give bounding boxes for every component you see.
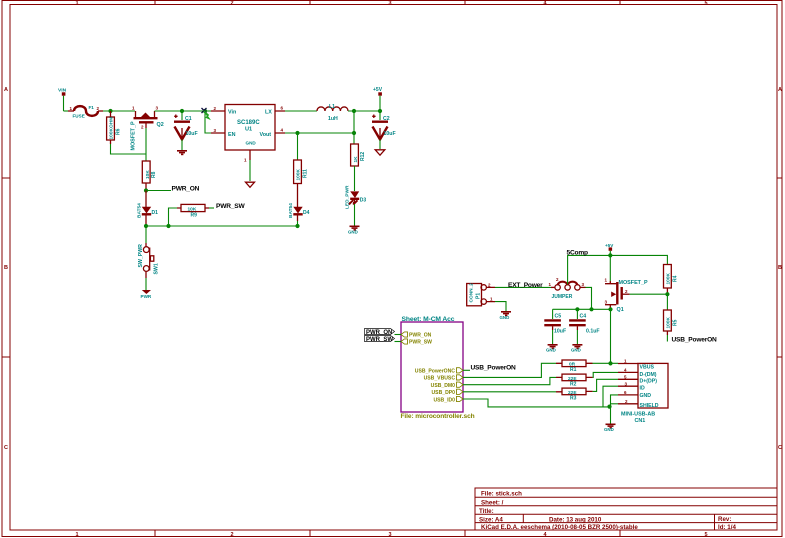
svg-text:GND: GND bbox=[640, 393, 652, 399]
resistor R11 bbox=[294, 160, 309, 207]
wire Vout row bbox=[285, 132, 354, 134]
border zone numbers top bbox=[75, 1, 707, 7]
transistor Q2 MOSFET_P bbox=[131, 106, 164, 151]
svg-text:100K: 100K bbox=[296, 168, 302, 180]
wire switch to flag bbox=[145, 278, 147, 290]
wire R5 to label bbox=[666, 335, 668, 342]
junction C2 bbox=[378, 109, 382, 113]
svg-text:MINI-USB-AB: MINI-USB-AB bbox=[621, 412, 655, 418]
junction jumper/caps bbox=[589, 307, 593, 311]
wire EXT_Power bbox=[495, 286, 551, 288]
fuse F1 bbox=[68, 105, 103, 118]
wire L1 to +5V node bbox=[348, 110, 380, 112]
power flag PWR bbox=[141, 290, 152, 299]
resistor R6 bbox=[107, 111, 122, 144]
wire USB_ID0 bbox=[463, 399, 610, 407]
svg-text:10K: 10K bbox=[145, 170, 151, 179]
svg-text:USB_PowerONC: USB_PowerONC bbox=[415, 369, 456, 375]
wire USB_DP0 to R3 bbox=[463, 391, 556, 393]
svg-text:0.1uF: 0.1uF bbox=[586, 329, 600, 335]
svg-text:1: 1 bbox=[75, 532, 78, 538]
svg-text:A: A bbox=[778, 87, 782, 93]
svg-text:5: 5 bbox=[704, 1, 707, 7]
svg-text:10uF: 10uF bbox=[384, 131, 396, 137]
svg-text:3: 3 bbox=[388, 532, 391, 538]
svg-text:MOSFET_P: MOSFET_P bbox=[131, 121, 137, 150]
svg-text:File: microcontroller.sch: File: microcontroller.sch bbox=[401, 413, 475, 420]
svg-text:Id: 1/4: Id: 1/4 bbox=[718, 524, 736, 531]
junction 5V rail bbox=[608, 253, 612, 257]
junction gate node bbox=[665, 292, 669, 296]
svg-text:Size: A4: Size: A4 bbox=[479, 516, 503, 523]
svg-text:PWR_ON: PWR_ON bbox=[366, 330, 392, 336]
wire to PWR_ON label bbox=[146, 190, 171, 192]
resistor R2 bbox=[556, 374, 593, 387]
svg-text:KiCad E.D.A. eeschema (2010-0: KiCad E.D.A. eeschema (2010-08-05 BZR 25… bbox=[481, 524, 638, 531]
svg-text:F1: F1 bbox=[89, 105, 95, 110]
ground under C1 bbox=[177, 151, 187, 155]
wire VIN to fuse bbox=[64, 110, 69, 112]
svg-text:USB_VBUSC: USB_VBUSC bbox=[424, 376, 456, 382]
border zone ticks bottom bbox=[155, 530, 620, 537]
diode D1 BAT54 bbox=[136, 191, 158, 227]
wire LX to L1 bbox=[285, 110, 317, 112]
svg-text:Q2: Q2 bbox=[157, 122, 164, 128]
global label PWR_SW left bbox=[365, 336, 402, 344]
resistor R8 bbox=[142, 161, 157, 190]
switch SW1 SW_PWR bbox=[138, 226, 160, 278]
svg-text:BAT54: BAT54 bbox=[136, 203, 142, 218]
ground under U1 bbox=[246, 182, 255, 187]
wire bottom rail bbox=[146, 225, 298, 227]
sheet M-CM Acc bbox=[401, 316, 475, 420]
svg-text:D3: D3 bbox=[360, 198, 367, 204]
svg-text:Vin: Vin bbox=[228, 110, 236, 116]
svg-text:JUMPER: JUMPER bbox=[552, 294, 573, 300]
wire Q2 drain to U1 bbox=[155, 110, 212, 112]
capacitor C4 bbox=[569, 309, 599, 334]
svg-text:CONN_2: CONN_2 bbox=[468, 283, 474, 303]
svg-text:PWR_ON: PWR_ON bbox=[409, 333, 432, 339]
svg-text:D-(DM): D-(DM) bbox=[640, 372, 657, 378]
svg-text:R1: R1 bbox=[570, 367, 577, 373]
wire Q1 gate to R4/R5 node bbox=[630, 293, 668, 295]
wire feedback bbox=[353, 111, 355, 133]
svg-text:USB_PowerON: USB_PowerON bbox=[471, 365, 517, 372]
resistor R12 bbox=[351, 144, 366, 191]
wire C1 to ground bbox=[181, 140, 183, 151]
ground under P1 bbox=[500, 312, 512, 320]
sheet pin PWR_SW bbox=[401, 339, 432, 346]
svg-text:L1: L1 bbox=[329, 104, 335, 110]
jumper JP1 bbox=[549, 277, 586, 300]
border zone ticks left bbox=[2, 178, 10, 357]
sheet pin USB_DP0 bbox=[432, 389, 464, 396]
wire to ground symbol bbox=[610, 407, 612, 424]
svg-text:USB_PowerON: USB_PowerON bbox=[672, 336, 718, 343]
svg-text:R4: R4 bbox=[672, 275, 678, 282]
wire jumper pin3 down bbox=[586, 287, 592, 309]
svg-text:2: 2 bbox=[230, 532, 233, 538]
junction Vout/feedback bbox=[352, 131, 356, 135]
svg-text:B: B bbox=[4, 265, 8, 271]
svg-text:1K: 1K bbox=[353, 156, 359, 163]
border zone ticks top bbox=[155, 1, 620, 5]
cursor X mark bbox=[202, 108, 210, 119]
wire P1 pin1 to ground bbox=[495, 302, 506, 311]
svg-text:1: 1 bbox=[75, 1, 78, 7]
svg-text:R2: R2 bbox=[570, 381, 577, 387]
border zone letters right bbox=[778, 87, 782, 451]
capacitor C1 bbox=[174, 111, 198, 140]
junction at switch column bbox=[144, 224, 148, 228]
junction C4 tap bbox=[575, 307, 579, 311]
resistor R9 bbox=[177, 204, 209, 218]
power symbol +5V bbox=[373, 87, 383, 111]
svg-text:C2: C2 bbox=[383, 116, 390, 122]
wire R12 tap bbox=[353, 133, 355, 144]
svg-text:SHIELD: SHIELD bbox=[640, 403, 659, 409]
svg-text:SW1: SW1 bbox=[154, 263, 160, 274]
resistor R5 bbox=[664, 310, 679, 335]
wire R9 to label bbox=[209, 207, 214, 209]
junction Vout/R11 bbox=[295, 131, 299, 135]
wire to R9 bbox=[169, 208, 178, 226]
svg-text:U1: U1 bbox=[245, 127, 252, 133]
svg-text:PWR_SW: PWR_SW bbox=[366, 337, 393, 343]
wire R3 to USB DP pin bbox=[593, 379, 618, 391]
ground under C4 bbox=[571, 345, 582, 353]
svg-text:SW_PWR: SW_PWR bbox=[138, 244, 144, 268]
wire C2 to ground bbox=[379, 140, 381, 150]
LED D3 LED_PWR bbox=[345, 185, 367, 209]
junction R9 tap bbox=[166, 224, 170, 228]
svg-text:1uH: 1uH bbox=[328, 116, 338, 122]
junction rail end bbox=[295, 224, 299, 228]
ground under C2 bbox=[375, 150, 385, 155]
wire R6 bottom to Q2 gate bbox=[111, 144, 147, 154]
svg-text:CN1: CN1 bbox=[635, 418, 646, 424]
junction node PWR_ON bbox=[144, 188, 148, 192]
junction Q1 drain bbox=[608, 307, 612, 311]
svg-text:100K: 100K bbox=[665, 272, 671, 284]
svg-text:100KOHM: 100KOHM bbox=[108, 117, 114, 140]
connector P1 CONN_2 bbox=[467, 282, 495, 305]
svg-text:B: B bbox=[778, 265, 782, 271]
svg-text:+5V: +5V bbox=[373, 87, 383, 93]
sheet pin USB_VBUSC bbox=[424, 375, 463, 382]
svg-text:D1: D1 bbox=[152, 210, 159, 216]
svg-text:100K: 100K bbox=[665, 316, 671, 328]
svg-text:R6: R6 bbox=[116, 128, 122, 135]
svg-text:PWR: PWR bbox=[141, 294, 152, 299]
svg-text:10uF: 10uF bbox=[186, 131, 198, 137]
wire USB_VBUSC to R1 bbox=[463, 363, 556, 377]
svg-text:Rev:: Rev: bbox=[718, 516, 731, 523]
svg-text:R3: R3 bbox=[570, 395, 577, 401]
border zone numbers bottom bbox=[75, 532, 707, 538]
diode D4 BAT54 bbox=[288, 203, 310, 221]
svg-text:10uF: 10uF bbox=[554, 329, 566, 335]
sheet pin USB_PowerONC bbox=[415, 368, 463, 375]
svg-text:GND: GND bbox=[546, 348, 556, 353]
op-amp U1 SC189C regulator bbox=[211, 105, 285, 163]
svg-text:FUSE: FUSE bbox=[73, 113, 85, 118]
svg-text:5Comp: 5Comp bbox=[567, 250, 589, 257]
svg-text:D4: D4 bbox=[303, 210, 310, 216]
svg-text:VBUS: VBUS bbox=[640, 365, 655, 371]
wire R1 to VBUS junction bbox=[593, 362, 619, 364]
svg-text:GND: GND bbox=[246, 141, 257, 146]
sheet pin PWR_ON bbox=[401, 332, 432, 339]
wire cap rail bbox=[553, 308, 611, 310]
junction gnd node bbox=[607, 405, 611, 409]
junction VBUS bbox=[608, 361, 612, 365]
svg-text:PWR_SW: PWR_SW bbox=[216, 203, 245, 210]
svg-text:USB_DP0: USB_DP0 bbox=[432, 390, 456, 396]
svg-text:3: 3 bbox=[388, 1, 391, 7]
wire to R11 bbox=[297, 133, 299, 160]
connector CN1 MINI-USB-AB bbox=[618, 359, 668, 424]
svg-text:C5: C5 bbox=[555, 314, 562, 320]
svg-text:EN: EN bbox=[228, 132, 236, 138]
svg-text:P1: P1 bbox=[476, 293, 482, 299]
wire fuse to node bbox=[103, 110, 135, 112]
svg-text:D+(DP): D+(DP) bbox=[640, 379, 658, 385]
wire C5 to ground bbox=[552, 330, 554, 344]
svg-text:C4: C4 bbox=[580, 314, 587, 320]
svg-text:GND: GND bbox=[500, 315, 510, 320]
wire USB_PowerONC stub bbox=[463, 369, 470, 371]
wire C4 to ground bbox=[576, 330, 578, 344]
svg-text:GND: GND bbox=[571, 348, 581, 353]
svg-text:2: 2 bbox=[230, 1, 233, 7]
wire R2 to USB DM pin bbox=[593, 372, 618, 377]
svg-text:MOSFET_P: MOSFET_P bbox=[619, 280, 648, 286]
svg-text:C: C bbox=[4, 445, 8, 451]
junction feedback tap bbox=[352, 109, 356, 113]
wire D4 to rail bbox=[297, 221, 299, 226]
svg-text:C1: C1 bbox=[185, 116, 192, 122]
svg-text:R11: R11 bbox=[303, 169, 309, 178]
svg-text:R9: R9 bbox=[191, 213, 198, 219]
wire shield pin jog bbox=[611, 403, 619, 405]
svg-text:Date: 13 aug 2010: Date: 13 aug 2010 bbox=[549, 516, 602, 523]
svg-text:Sheet: M-CM Acc: Sheet: M-CM Acc bbox=[402, 316, 455, 323]
junction EN tap bbox=[203, 109, 207, 113]
wire gnd pin jog bbox=[611, 395, 619, 407]
svg-text:Q1: Q1 bbox=[617, 307, 624, 313]
border zone ticks right bbox=[777, 178, 782, 357]
power symbol +5V at Q1 bbox=[605, 243, 614, 256]
svg-text:ID: ID bbox=[640, 386, 645, 392]
wire D3 to ground bbox=[354, 204, 356, 226]
svg-text:+5V: +5V bbox=[605, 243, 614, 248]
svg-text:GND: GND bbox=[348, 230, 358, 235]
svg-text:R5: R5 bbox=[672, 319, 678, 326]
resistor R3 bbox=[556, 388, 593, 401]
junction at R6 top bbox=[108, 109, 112, 113]
svg-text:Title:: Title: bbox=[479, 508, 494, 515]
svg-text:C: C bbox=[778, 445, 782, 451]
svg-text:BAT54: BAT54 bbox=[288, 203, 294, 218]
svg-text:SC189C: SC189C bbox=[237, 120, 260, 126]
svg-text:A: A bbox=[4, 87, 8, 93]
svg-text:5: 5 bbox=[704, 532, 707, 538]
wire gate node to R5 bbox=[666, 294, 668, 310]
border zone letters left bbox=[4, 87, 8, 451]
power symbol VIN bbox=[58, 87, 67, 111]
sheet pin USB_ID0 bbox=[433, 396, 463, 403]
capacitor C2 bbox=[372, 111, 396, 140]
inductor L1 bbox=[317, 104, 348, 122]
ground under USB bbox=[604, 424, 616, 432]
svg-text:USB_DM0: USB_DM0 bbox=[431, 383, 456, 389]
global label PWR_ON left bbox=[365, 329, 402, 337]
svg-text:Sheet: /: Sheet: / bbox=[481, 499, 504, 506]
svg-text:LED_PWR: LED_PWR bbox=[345, 185, 351, 209]
title block bbox=[475, 488, 777, 531]
wire ID riser bbox=[603, 386, 618, 407]
svg-text:R8: R8 bbox=[151, 171, 157, 178]
resistor R4 bbox=[664, 265, 679, 295]
junction C1 bbox=[180, 109, 184, 113]
wire EN jog bbox=[205, 111, 211, 133]
wire jumper pin2 up to 5Comp bbox=[568, 255, 611, 284]
resistor R1 bbox=[556, 360, 593, 373]
svg-text:PWR_SW: PWR_SW bbox=[409, 340, 432, 346]
wire U1 gnd bbox=[249, 160, 251, 181]
sheet pin USB_DM0 bbox=[431, 382, 463, 389]
svg-text:EXT_Power: EXT_Power bbox=[508, 282, 543, 289]
ground under D3 bbox=[348, 226, 360, 234]
ground under C5 bbox=[546, 345, 558, 353]
svg-text:GND: GND bbox=[604, 427, 614, 432]
wire Q1 drain to VBUS junction bbox=[610, 309, 612, 363]
svg-text:R12: R12 bbox=[360, 152, 366, 161]
wire Q2 gate down bbox=[145, 128, 147, 161]
svg-text:LX: LX bbox=[265, 110, 272, 116]
wire USB_DM0 to R2 bbox=[463, 377, 556, 384]
wire 5V rail to R4 bbox=[610, 255, 667, 264]
svg-text:File: stick.sch: File: stick.sch bbox=[481, 491, 522, 498]
svg-text:Vout: Vout bbox=[260, 132, 272, 138]
wire Q1 source bbox=[609, 255, 611, 281]
transistor Q1 MOSFET_P bbox=[605, 278, 648, 314]
capacitor C5 bbox=[544, 309, 566, 334]
svg-text:USB_ID0: USB_ID0 bbox=[433, 397, 455, 403]
svg-text:PWR_ON: PWR_ON bbox=[172, 185, 200, 192]
